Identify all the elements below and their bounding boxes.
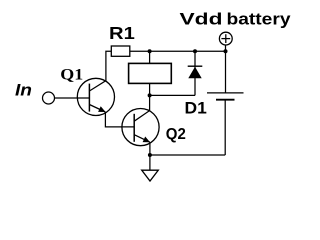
svg-text:Q2: Q2 <box>166 126 186 143</box>
svg-text:In: In <box>15 82 32 100</box>
svg-text:Vdd: Vdd <box>180 11 223 29</box>
svg-text:Q1: Q1 <box>60 66 83 83</box>
svg-text:R1: R1 <box>109 23 135 43</box>
svg-text:D1: D1 <box>185 99 207 117</box>
svg-text:battery: battery <box>227 11 292 29</box>
